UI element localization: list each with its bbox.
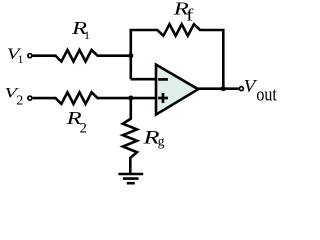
svg-text:1: 1 [18,54,24,66]
svg-text:2: 2 [80,120,87,136]
svg-text:out: out [256,85,277,106]
svg-text:g: g [158,134,165,149]
svg-text:1: 1 [84,28,90,42]
svg-text:2: 2 [16,94,23,109]
svg-text:f: f [186,6,194,25]
